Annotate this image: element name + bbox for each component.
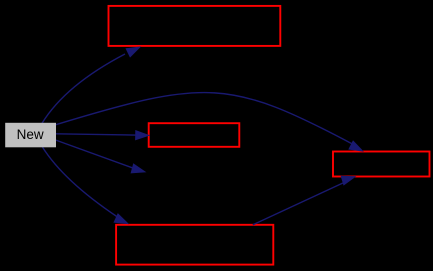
- wire: edge New to bottom box: [42, 147, 117, 217]
- wire: edge New to middle box: [56, 134, 142, 135]
- node: middle box (red): [149, 123, 240, 147]
- wire: edge New to hidden node: [56, 140, 136, 169]
- arrowhead into middle box: [135, 130, 150, 141]
- arrowhead into top box: [125, 42, 143, 58]
- arrowhead into right box bottom: [341, 171, 358, 185]
- arrowhead into hidden node: [131, 163, 148, 177]
- arrowhead into bottom box: [113, 213, 131, 229]
- node: right box (red): [333, 152, 430, 177]
- wire: edge New to top box: [42, 54, 125, 123]
- wire: edge bottom box to right box: [253, 182, 345, 225]
- node: top box (red): [109, 6, 281, 46]
- node: hidden node (black on black): [150, 160, 240, 184]
- node: New (grey, current node): [6, 123, 56, 147]
- wire: edge New to right box (long arc): [56, 93, 353, 145]
- svg-text:New: New: [17, 127, 44, 142]
- node: bottom box (red): [116, 225, 273, 265]
- arrowhead into right box top: [348, 140, 366, 156]
